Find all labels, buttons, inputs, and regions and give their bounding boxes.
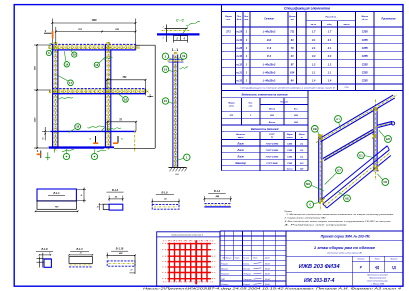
svg-text:Н.контр.: Н.контр.	[221, 274, 230, 276]
elevation right end post centerline	[134, 131, 136, 153]
title block grid	[220, 231, 403, 286]
svg-text:Лист: Лист	[374, 259, 380, 261]
svg-text:общ.: общ.	[327, 23, 332, 26]
specification table grid	[222, 5, 404, 91]
elevation second top dimension line	[55, 27, 137, 44]
elevation overall top dimension line	[51, 19, 136, 45]
svg-text:элем.: элем.	[229, 106, 235, 108]
svg-text:1480: 1480	[91, 19, 97, 22]
svg-text:Б-1.10: Б-1.10	[116, 248, 124, 251]
svg-text:С255: С255	[362, 47, 369, 50]
svg-text:С255: С255	[287, 163, 293, 165]
detail B-1.1 plate	[35, 188, 86, 213]
title block left texts	[221, 257, 270, 287]
svg-text:1150: 1150	[35, 117, 37, 122]
svg-text:С255: С255	[287, 143, 293, 145]
isometric left column bottom overshoot	[319, 202, 321, 211]
svg-text:т.32: т.32	[236, 63, 242, 66]
svg-text:Утверд.: Утверд.	[221, 283, 229, 286]
svg-text:2.1: 2.1	[311, 47, 316, 50]
svg-text:4. Размеры для справок: 4. Размеры для справок	[285, 223, 350, 226]
svg-text:БЛ: БЛ	[386, 137, 390, 141]
svg-text:шт.: шт.	[244, 19, 249, 21]
svg-text:Б7: Б7	[337, 168, 341, 172]
svg-text:Всего: Всего	[269, 122, 276, 124]
svg-text:всего: всего	[287, 168, 293, 170]
svg-text:L-40х25х3: L-40х25х3	[263, 62, 276, 66]
svg-text:Иванов: Иванов	[243, 269, 250, 271]
section cut mark C right	[113, 136, 123, 143]
svg-text:0.1: 0.1	[328, 39, 332, 42]
title block object name	[314, 245, 376, 254]
svg-text:282: 282	[293, 115, 298, 117]
isometric middle rail	[324, 132, 374, 161]
svg-text:L-40х25х3: L-40х25х3	[263, 70, 276, 74]
svg-text:05.04: 05.04	[265, 283, 270, 286]
svg-text:45: 45	[80, 252, 82, 255]
detail B-1.10 bar	[106, 248, 135, 274]
svg-text:С255: С255	[362, 55, 369, 58]
svg-text:ГОСТ 19903: ГОСТ 19903	[266, 150, 279, 152]
svg-text:Кол.уч: Кол.уч	[226, 258, 231, 260]
svg-text:Схема расположения сетки поз.5: Схема расположения сетки поз.5	[171, 234, 204, 236]
svg-text:2Г1: 2Г1	[225, 30, 231, 34]
svg-text:1Д: 1Д	[392, 266, 397, 270]
view 1-1 top chord end cross	[168, 60, 185, 63]
svg-text:14: 14	[164, 67, 167, 71]
elevation left dimension chain	[34, 44, 51, 149]
svg-text:Разраб.: Разраб.	[221, 263, 229, 265]
notes text block	[283, 211, 394, 226]
svg-text:вание: вание	[238, 137, 245, 139]
svg-text:т.33: т.33	[236, 80, 242, 83]
svg-text:1.7: 1.7	[312, 31, 316, 34]
svg-text:С255: С255	[362, 80, 369, 83]
svg-text:1.1: 1.1	[312, 71, 316, 74]
svg-text:СВ: СВ	[313, 127, 317, 131]
detail B-1.8 angle	[36, 248, 53, 268]
svg-text:стали: стали	[287, 137, 294, 139]
svg-text:Проектный институт: Проектный институт	[367, 274, 388, 277]
isometric left column	[318, 137, 320, 203]
position circle 14	[64, 62, 69, 67]
svg-text:Наимено-: Наимено-	[236, 134, 246, 136]
svg-text:Сечение: Сечение	[264, 19, 274, 21]
svg-text:1.2: 1.2	[312, 63, 316, 66]
anchor circle right	[91, 153, 97, 159]
elevation lower rail member	[50, 130, 136, 132]
svg-text:Насос-2\Проект\ИЖ203\В7-4.dwg: Насос-2\Проект\ИЖ203\В7-4.dwg 24.05.2004…	[143, 288, 403, 291]
svg-text:16: 16	[124, 97, 127, 101]
svg-text:2. Сварку вести электродами Э4: 2. Сварку вести электродами Э42	[283, 217, 326, 220]
svg-text:1. Монтажные соединения элемен: 1. Монтажные соединения элементов выполн…	[286, 213, 394, 216]
position circle 17 mid-left	[68, 80, 74, 86]
position circle 6 top-left	[46, 50, 51, 55]
svg-text:Стадия: Стадия	[357, 258, 364, 261]
detail B-1.2 plate	[97, 189, 124, 210]
elevation opening dimension line	[106, 77, 146, 96]
svg-text:дет.: дет.	[237, 18, 242, 21]
svg-text:814: 814	[290, 71, 295, 74]
svg-text:Кол.: Кол.	[249, 103, 254, 105]
svg-text:г. Москва 2004: г. Москва 2004	[371, 283, 384, 286]
svg-text:Лист: Лист	[237, 143, 244, 145]
svg-text:Масса: Масса	[299, 134, 305, 136]
elevation bounding dimension box	[114, 45, 155, 148]
svg-text:19: 19	[182, 54, 185, 58]
svg-text:Смирнов: Смирнов	[243, 279, 251, 281]
svg-text:Марка: Марка	[287, 134, 293, 136]
svg-text:АБ: АБ	[345, 196, 349, 200]
svg-text:1 - 1: 1 - 1	[172, 48, 179, 52]
view 1-1 weld squiggle	[180, 67, 189, 69]
isometric top-right stub	[376, 121, 395, 127]
svg-text:0.4: 0.4	[328, 55, 332, 58]
isometric bottom rail	[322, 146, 391, 208]
svg-text:17: 17	[69, 81, 72, 85]
mesh panel frame	[157, 232, 220, 286]
elevation small left bottom dimension	[42, 127, 50, 140]
position circle 19 top	[72, 52, 77, 57]
svg-text:L-40х25х3: L-40х25х3	[263, 30, 276, 34]
svg-text:19: 19	[73, 53, 76, 57]
position circle 16 opening	[123, 97, 129, 103]
svg-text:1.7: 1.7	[328, 31, 332, 34]
svg-text:т.29: т.29	[236, 31, 242, 34]
svg-text:Б-1.6: Б-1.6	[161, 191, 168, 194]
svg-text:С255: С255	[362, 63, 369, 66]
element list table	[222, 90, 309, 125]
svg-text:т.44: т.44	[236, 39, 242, 42]
svg-text:ед. кг: ед. кг	[362, 18, 369, 21]
detail B-1.4 bar	[204, 190, 232, 207]
isometric right column	[373, 108, 375, 172]
svg-text:мм: мм	[291, 19, 295, 21]
svg-text:13: 13	[95, 63, 98, 67]
svg-text:05.04: 05.04	[265, 262, 270, 265]
svg-text:282: 282	[293, 122, 298, 124]
weld annotation squiggles on elevation	[57, 57, 121, 131]
svg-text:Подп.: Подп.	[253, 257, 258, 260]
svg-text:С255: С255	[287, 150, 293, 152]
svg-text:2х4: 2х4	[266, 38, 272, 42]
svg-text:С255: С255	[362, 31, 369, 34]
position circle 13 right	[94, 62, 99, 67]
svg-text:Лист: Лист	[237, 157, 244, 159]
svg-text:Поз.: Поз.	[237, 16, 242, 18]
svg-text:Лист: Лист	[237, 150, 244, 152]
view 1-1 column member	[173, 52, 178, 167]
svg-text:Б1: Б1	[359, 153, 363, 157]
svg-text:15: 15	[164, 99, 167, 103]
elevation base plate line	[49, 146, 105, 148]
svg-text:4Д: 4Д	[374, 266, 380, 270]
svg-text:Кол.: Кол.	[244, 16, 249, 18]
svg-text:ИЖВ 203 ФИЗ4: ИЖВ 203 ФИЗ4	[299, 264, 341, 270]
svg-text:Расход: Расход	[280, 101, 288, 104]
svg-text:С255: С255	[362, 71, 369, 74]
svg-text:18: 18	[76, 125, 79, 129]
svg-text:Ведомость элементов на монтаж: Ведомость элементов на монтаж	[242, 93, 289, 97]
svg-text:711: 711	[290, 31, 295, 34]
svg-text:ГОСТ 19903: ГОСТ 19903	[266, 143, 279, 145]
weld squiggles under base	[62, 150, 106, 152]
svg-text:ГОСТ 19903: ГОСТ 19903	[266, 157, 279, 159]
svg-text:Б-1.2: Б-1.2	[112, 189, 119, 192]
anchor circle left	[63, 153, 69, 159]
svg-text:3. Все соединения после сварки: 3. Все соединения после сварки зачистить…	[285, 220, 392, 223]
svg-text:Кол.: Кол.	[294, 108, 299, 110]
svg-text:Швеллер: Швеллер	[235, 163, 246, 165]
svg-text:т.31: т.31	[236, 71, 242, 74]
svg-text:ГОСТ,: ГОСТ,	[269, 134, 275, 136]
svg-text:Масса: Масса	[269, 108, 276, 110]
svg-text:Марка: Марка	[228, 103, 235, 105]
svg-text:ГОСТ 8240: ГОСТ 8240	[266, 162, 278, 165]
svg-text:Б-1.3: Б-1.3	[76, 248, 83, 251]
svg-text:1.4: 1.4	[312, 80, 316, 83]
svg-text:0.4: 0.4	[312, 55, 316, 58]
detail B-1.3 plate with strip	[68, 248, 93, 267]
svg-text:Ведомость деталей: Ведомость деталей	[251, 127, 279, 131]
svg-text:Промстройпроект: Промстройпроект	[369, 277, 387, 280]
svg-text:2Г1: 2Г1	[229, 115, 235, 117]
svg-text:С: С	[309, 202, 311, 206]
svg-text:поз.: поз.	[226, 19, 231, 21]
svg-text:Белов: Белов	[243, 263, 249, 265]
svg-text:05.04: 05.04	[265, 278, 270, 281]
svg-text:ИЖ 203-В7-4: ИЖ 203-В7-4	[304, 278, 335, 284]
svg-text:1.4: 1.4	[328, 80, 332, 83]
position circle 18 lower	[75, 124, 81, 130]
svg-text:Спецификация элементов: Спецификация элементов	[284, 7, 330, 11]
svg-text:2.1: 2.1	[327, 47, 332, 50]
svg-text:C - C: C - C	[176, 19, 184, 23]
svg-text:СК: СК	[384, 180, 388, 184]
elevation lower rail dimension line	[106, 119, 137, 131]
svg-text:Проект серии ЗМ4. № 203-7М.: Проект серии ЗМ4. № 203-7М.	[321, 235, 371, 239]
elevation small dimension mark 4	[147, 93, 153, 97]
svg-text:282: 282	[269, 115, 274, 117]
svg-text:т.28: т.28	[236, 47, 242, 50]
reinforcement mesh	[163, 240, 216, 284]
svg-text:Провер.: Провер.	[221, 269, 229, 271]
svg-text:Петров: Петров	[243, 274, 250, 276]
small green tick at base	[45, 43, 54, 160]
svg-text:ГИП: ГИП	[221, 279, 226, 281]
svg-text:С-9: С-9	[267, 46, 272, 50]
svg-text:1.2: 1.2	[328, 63, 332, 66]
svg-text:на эл.: на эл.	[311, 24, 317, 26]
section cut mark 1 bottom	[37, 149, 41, 158]
title block organization cell	[367, 274, 389, 286]
svg-text:С255: С255	[362, 39, 369, 42]
svg-text:Листов: Листов	[389, 259, 397, 261]
svg-text:масса: масса	[344, 24, 351, 26]
svg-text:Масса: Масса	[362, 16, 369, 18]
svg-text:М4: М4	[306, 182, 310, 186]
section cut mark 1 top	[44, 29, 53, 39]
svg-text:Б-1.8: Б-1.8	[41, 248, 48, 251]
svg-text:монтажная схема и узлы каркаса: монтажная схема и узлы каркаса 4Б	[327, 251, 362, 254]
svg-text:Козлов: Козлов	[243, 284, 249, 286]
svg-text:05.04: 05.04	[265, 273, 270, 276]
svg-text:Примеч.: Примеч.	[285, 211, 293, 213]
mesh panel title line	[157, 236, 220, 238]
svg-text:Р-2: Р-2	[267, 54, 272, 58]
title block document codes	[299, 264, 341, 284]
isometric weld x-markers	[318, 107, 379, 203]
svg-text:43: 43	[290, 55, 294, 58]
section cut mark C left	[89, 136, 98, 143]
svg-text:05.04: 05.04	[265, 268, 270, 271]
svg-text:т.34: т.34	[236, 55, 242, 58]
elevation left column member	[53, 42, 58, 151]
svg-text:L-40х25х3: L-40х25х3	[263, 79, 276, 83]
title block stage cells	[357, 258, 397, 270]
svg-text:14: 14	[65, 62, 68, 66]
svg-text:40: 40	[97, 205, 99, 208]
view 1-1 position circles	[162, 53, 168, 59]
isometric top chord	[320, 98, 395, 142]
details list table	[222, 125, 309, 171]
section C-C detail	[157, 21, 200, 42]
elevation top chord member	[49, 44, 140, 50]
svg-text:1 этаж сборки рам по обвязке: 1 этаж сборки рам по обвязке	[314, 245, 376, 250]
elevation base medium extension	[104, 146, 115, 148]
svg-text:Длина: Длина	[288, 16, 296, 18]
svg-text:Лист: Лист	[234, 258, 240, 260]
view 1-1 base with hatch	[169, 167, 188, 176]
isometric position circles	[312, 126, 319, 133]
svg-text:Б-1.4: Б-1.4	[214, 190, 221, 193]
elevation middle rail member	[49, 89, 149, 94]
specification table texts	[225, 7, 396, 90]
svg-text:Спецификацию на полный элемент: Спецификацию на полный элемент смотри в …	[241, 86, 336, 89]
svg-text:Марка: Марка	[225, 16, 232, 18]
svg-text:Примечание: Примечание	[381, 19, 396, 21]
svg-text:С255: С255	[287, 157, 293, 159]
svg-text:шт.: шт.	[249, 106, 254, 108]
svg-text:40: 40	[130, 268, 132, 271]
svg-text:1.1: 1.1	[328, 71, 332, 74]
detail B-1.6 bar	[151, 191, 179, 209]
svg-text:№ док.: № док.	[243, 257, 249, 260]
svg-text:4: 4	[49, 252, 50, 255]
svg-text:Б-1.1: Б-1.1	[53, 192, 60, 195]
svg-text:кг: кг	[301, 137, 303, 139]
svg-text:Дата: Дата	[264, 258, 270, 260]
elevation middle column member	[105, 42, 110, 150]
svg-text:0.1: 0.1	[312, 39, 316, 42]
svg-text:Расход на: Расход на	[326, 16, 337, 19]
svg-text:отдел металлоконстр.: отдел металлоконстр.	[367, 280, 389, 283]
